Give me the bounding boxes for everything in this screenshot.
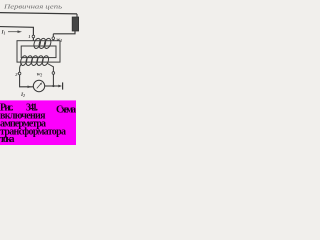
- transformer core (outer): [17, 41, 60, 62]
- ammeter A: [33, 80, 44, 91]
- svg-text:тока: тока: [0, 134, 15, 145]
- svg-text:1: 1: [28, 34, 30, 39]
- ammeter needle: [37, 84, 41, 89]
- node 1 (left primary terminal): [32, 35, 35, 38]
- wire: top primary bus line: [0, 13, 77, 14]
- wire: right terminal down to junction: [52, 74, 54, 86]
- caption highlight block: [0, 100, 76, 145]
- wire: lower-left primary bus line: [0, 27, 33, 41]
- wire: ammeter right to junction: [45, 85, 54, 87]
- wire: secondary left lead: [20, 64, 22, 73]
- scan paper background: [0, 0, 80, 145]
- svg-text:w1: w1: [57, 37, 63, 43]
- secondary winding w2 loops: [19, 55, 49, 66]
- wire: secondary right lead: [48, 64, 54, 72]
- node (right primary terminal): [52, 34, 54, 41]
- caption text: [0, 102, 76, 145]
- terminal bar: [62, 82, 64, 89]
- I2 current arrow: [28, 86, 33, 89]
- resistor load (black rectangle): [72, 17, 78, 31]
- wire: right drop from top bus to load: [76, 14, 78, 18]
- transformer core (inner window): [21, 46, 56, 58]
- wire: load bottom stub: [53, 31, 75, 34]
- node (right secondary terminal): [52, 72, 55, 75]
- svg-text:Схема: Схема: [56, 105, 76, 116]
- svg-text:Первичная цепь: Первичная цепь: [3, 4, 63, 11]
- node 2 (left secondary terminal): [18, 72, 21, 75]
- primary winding w1 loops: [33, 38, 52, 50]
- wire: left down to ammeter: [20, 75, 34, 87]
- junction dot: [52, 85, 54, 87]
- wire: output arrow to bar: [53, 85, 59, 87]
